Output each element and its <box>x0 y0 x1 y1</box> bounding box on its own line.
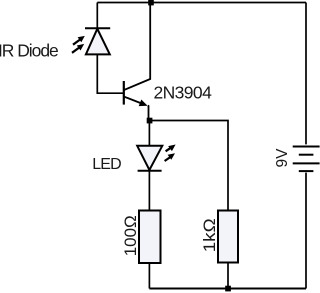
battery BT1 9V: plate short bottom <box>299 170 314 172</box>
battery BT1 9V: plate long top <box>293 146 320 148</box>
wire: bottom rail <box>149 288 306 290</box>
wire: right rail bottom (battery - to bottom rail) <box>305 173 307 289</box>
arrow: light into IR diode (lower) <box>72 44 84 53</box>
wire: emitter junction to 1k resistor top <box>150 121 229 211</box>
wire: IR diode to transistor base <box>97 54 123 93</box>
diode D2 LED: triangle body <box>137 146 162 170</box>
wire: IR diode anode stem <box>96 3 98 29</box>
node: junction bottom rail at 1k resistor <box>225 286 231 292</box>
wire: LED cathode to 100 ohm resistor <box>148 171 150 211</box>
wire: right rail top (to battery +) <box>305 3 307 145</box>
wire: top rail from IR diode top to battery top <box>97 2 306 4</box>
svg-text:1kΩ: 1kΩ <box>201 218 219 252</box>
diode D1 IR Diode: triangle body <box>86 29 110 55</box>
diode D2 LED: cathode bar <box>138 170 162 172</box>
transistor Q1 2N3904: collector lead <box>124 3 150 91</box>
diode D1 IR Diode: cathode bar <box>85 27 110 29</box>
svg-text:LED: LED <box>92 156 121 173</box>
resistor R1 100 ohm: body <box>139 211 161 264</box>
arrow: light out of LED (lower) <box>165 153 175 161</box>
transistor Q1 2N3904: emitter lead with arrow <box>124 97 149 121</box>
transistor Q1 2N3904: base bar <box>123 81 125 105</box>
arrow: light out of LED (upper) <box>166 145 176 152</box>
resistor R2 1k ohm: body <box>218 211 238 263</box>
node: junction on top rail (collector net) <box>148 0 154 5</box>
battery BT1 9V: plate long bottom <box>293 162 320 164</box>
svg-text:100Ω: 100Ω <box>122 215 140 256</box>
wire: 100 ohm resistor to bottom rail <box>148 263 150 289</box>
battery BT1 9V: plate short <box>299 154 314 156</box>
wire: 1k resistor to bottom rail <box>227 263 229 289</box>
node: emitter junction <box>147 118 153 124</box>
svg-text:9V: 9V <box>274 148 291 168</box>
wire: emitter junction down to LED <box>148 121 150 146</box>
arrow: light into IR diode (upper) <box>73 36 85 45</box>
svg-text:2N3904: 2N3904 <box>154 83 213 103</box>
svg-text:IR Diode: IR Diode <box>0 40 58 60</box>
